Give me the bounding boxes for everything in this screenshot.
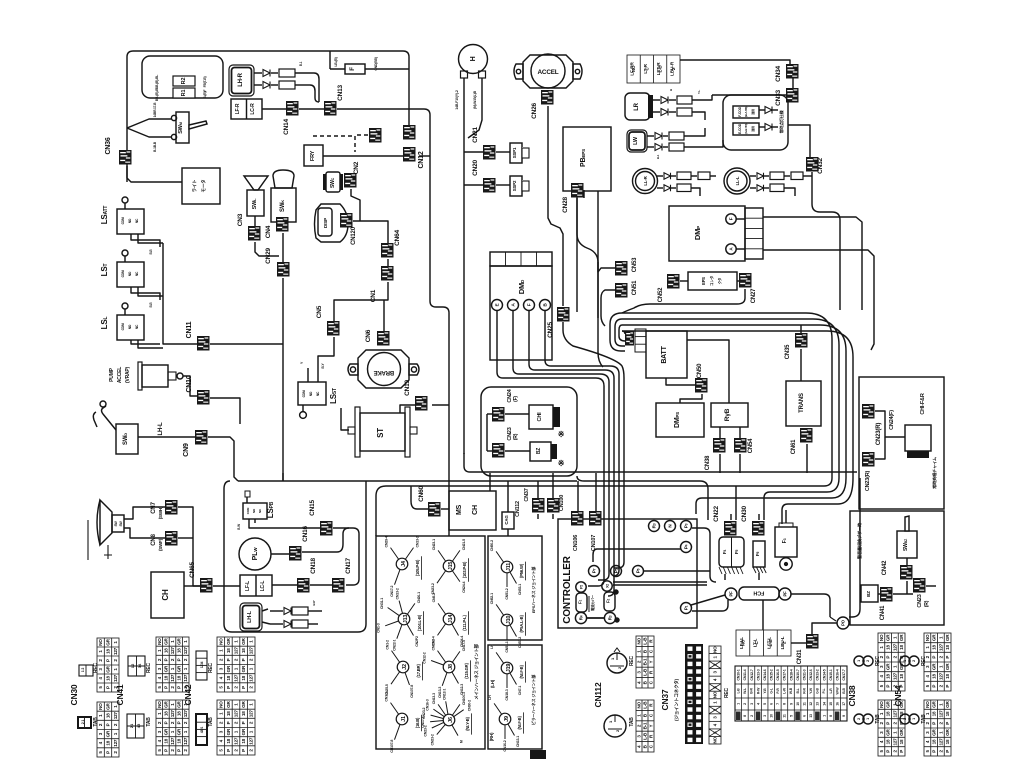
svg-text:13: 13 xyxy=(809,714,813,718)
svg-text:CN11-3: CN11-3 xyxy=(802,669,806,680)
connector CN7 xyxy=(165,500,178,515)
wire enclosure to CN32 xyxy=(788,125,810,157)
svg-text:CN50: CN50 xyxy=(697,363,703,378)
svg-text:TAB: TAB xyxy=(146,717,152,727)
connector CN16 xyxy=(289,546,302,561)
svg-text:R-R: R-R xyxy=(802,688,806,694)
controller inner wires xyxy=(587,617,604,619)
svg-text:CN37: CN37 xyxy=(660,689,670,710)
svg-text:CN100-3: CN100-3 xyxy=(462,692,466,705)
starter ST body xyxy=(360,413,405,451)
svg-text:CN13-1: CN13-1 xyxy=(516,736,520,747)
switch SWl body xyxy=(247,190,264,216)
svg-text:CN23(R): CN23(R) xyxy=(876,423,882,445)
svg-text:18: 18 xyxy=(226,738,231,743)
svg-text:CN51-2: CN51-2 xyxy=(505,588,509,599)
svg-text:GR: GR xyxy=(106,702,111,709)
svg-text:T-L: T-L xyxy=(697,90,701,94)
svg-text:PF: PF xyxy=(729,591,734,597)
wire CN52 to EPS box xyxy=(680,280,688,282)
wire CN20 to SSP2 xyxy=(496,184,510,186)
svg-text:CN42: CN42 xyxy=(882,560,888,575)
svg-text:CN13-2: CN13-2 xyxy=(415,536,419,547)
box CAG xyxy=(502,512,514,529)
svg-text:CN13-2: CN13-2 xyxy=(431,639,435,650)
svg-text:REC: REC xyxy=(208,662,214,673)
svg-text:GR: GR xyxy=(899,634,904,641)
wire CN50 down to DMps xyxy=(680,394,702,403)
connector CN35 xyxy=(795,333,808,348)
svg-text:14BR.17-B: 14BR.17-B xyxy=(153,102,157,118)
resistor R1 xyxy=(173,88,195,98)
connector CN10 xyxy=(197,390,210,405)
wire LF-R to CN14 xyxy=(262,108,286,110)
svg-text:GR: GR xyxy=(886,729,891,736)
svg-text:CN4: CN4 xyxy=(265,225,272,238)
svg-text:18: 18 xyxy=(163,675,168,680)
wire CN6 to bus xyxy=(383,300,385,331)
svg-text:(B-A '88): (B-A '88) xyxy=(744,107,748,118)
svg-text:LT-R: LT-R xyxy=(643,64,649,74)
svg-text:GR: GR xyxy=(226,700,231,707)
svg-text:CN24-4: CN24-4 xyxy=(462,582,466,593)
wire LSatt contacts xyxy=(131,234,160,247)
svg-text:P1: P1 xyxy=(684,605,689,610)
pump accel motor xyxy=(142,365,168,387)
svg-text:(SWH): (SWH) xyxy=(158,506,163,519)
svg-text:18: 18 xyxy=(899,739,904,744)
connector CN3 xyxy=(248,226,261,241)
starter ST left flange xyxy=(355,407,360,457)
right bundle curves to controller xyxy=(376,478,832,536)
svg-text:CN15: CN15 xyxy=(309,500,316,516)
controller box xyxy=(558,519,697,628)
wire PLw to CN16 xyxy=(271,553,289,555)
svg-text:P: P xyxy=(163,686,168,689)
wire long horizontal mid Y481 left xyxy=(238,480,577,482)
box F-COD xyxy=(733,106,759,118)
svg-text:PUMP: PUMP xyxy=(109,367,115,382)
svg-text:2: 2 xyxy=(903,718,907,720)
wire CN25 down join xyxy=(563,322,624,500)
svg-text:GR: GR xyxy=(226,665,231,672)
limit switch LSst xyxy=(298,382,326,405)
svg-text:P: P xyxy=(945,656,950,659)
connector CN34 xyxy=(786,64,799,79)
svg-text:18: 18 xyxy=(163,648,168,653)
svg-text:P: P xyxy=(177,686,182,689)
svg-text:GR: GR xyxy=(241,700,246,707)
svg-text:18: 18 xyxy=(226,648,231,653)
svg-text:GR: GR xyxy=(932,663,937,670)
wire right vertical to PO xyxy=(849,478,860,617)
svg-text:P: P xyxy=(106,659,111,662)
junction hub J4 xyxy=(391,548,399,560)
DMd terminal A xyxy=(508,300,519,311)
svg-text:(104.L-B): (104.L-B) xyxy=(417,614,422,631)
svg-text:NO: NO xyxy=(157,701,162,708)
svg-text:(NI.#-B): (NI.#-B) xyxy=(519,665,524,679)
svg-text:CN52: CN52 xyxy=(658,287,664,302)
connector CN120 xyxy=(340,213,353,228)
box BZ small xyxy=(530,442,551,461)
junction hub J9 xyxy=(494,703,502,714)
svg-text:13: 13 xyxy=(816,702,820,706)
box BZ right-enc xyxy=(861,585,878,602)
svg-text:P6: P6 xyxy=(636,568,641,573)
svg-text:W-B: W-B xyxy=(789,687,793,694)
wire LH-R rows down to CN13 row xyxy=(314,73,319,102)
terminal PF right circle xyxy=(779,588,791,600)
svg-text:ACCEL: ACCEL xyxy=(117,367,123,383)
terminal PF left circle xyxy=(725,588,737,600)
svg-text:127: 127 xyxy=(183,737,188,745)
svg-text:1 2: 1 2 xyxy=(131,664,135,668)
svg-text:127: 127 xyxy=(249,647,254,655)
connector CN23R right-enc xyxy=(862,404,875,419)
svg-text:LBU-R: LBU-R xyxy=(669,61,675,76)
connector CN61 xyxy=(800,428,813,443)
svg-text:F: F xyxy=(729,217,734,220)
svg-text:P: P xyxy=(226,686,231,689)
svg-text:J6: J6 xyxy=(448,717,454,723)
svg-text:CN18-4: CN18-4 xyxy=(789,669,793,680)
display DISP screen xyxy=(318,208,332,236)
svg-text:P: P xyxy=(886,685,891,688)
LL-L chain row2 xyxy=(750,187,756,189)
svg-text:18: 18 xyxy=(177,675,182,680)
svg-text:CN54: CN54 xyxy=(893,685,903,706)
svg-text:CN17-5: CN17-5 xyxy=(462,640,466,651)
svg-text:FB(T-B): FB(T-B) xyxy=(203,77,207,88)
svg-text:CN18: CN18 xyxy=(310,558,317,574)
wire top-left outer loop xyxy=(127,51,409,182)
svg-text:CN23-2: CN23-2 xyxy=(430,734,434,745)
svg-text:CN11: CN11 xyxy=(186,321,193,338)
junction hub J11 xyxy=(496,551,504,562)
controller terminal N top xyxy=(665,521,676,532)
svg-text:常時点灯仕様: 常時点灯仕様 xyxy=(778,109,784,133)
svg-text:P: P xyxy=(106,686,111,689)
controller dots xyxy=(614,590,618,594)
svg-text:CN38: CN38 xyxy=(705,455,711,470)
svg-text:PO: PO xyxy=(841,619,846,626)
svg-text:CN14-5: CN14-5 xyxy=(822,669,826,680)
wire ACCEL down to CN25 area xyxy=(548,106,563,306)
wire ST left terminal xyxy=(341,408,349,430)
DMd terminal B xyxy=(540,300,551,311)
svg-text:J15: J15 xyxy=(448,562,454,571)
wire DMp A to right bus xyxy=(736,248,745,250)
svg-text:F-COD: F-COD xyxy=(738,106,742,116)
svg-text:CN13-3: CN13-3 xyxy=(438,687,442,698)
svg-text:6: 6 xyxy=(770,703,774,705)
small block bottom edge xyxy=(530,750,546,759)
connector CN30 TAB table xyxy=(97,702,119,757)
svg-text:127: 127 xyxy=(938,738,943,746)
connector CN12 lower xyxy=(403,147,416,162)
wire CN14 to CN13 xyxy=(299,108,324,110)
connector CN24F left xyxy=(492,407,505,422)
connector CN17 xyxy=(332,578,345,593)
connector CN22 xyxy=(724,521,737,536)
controller terminal X2 xyxy=(602,581,612,591)
svg-text:G-B: G-B xyxy=(816,687,820,693)
fuse F6 xyxy=(753,541,765,567)
LL-L chain row1 xyxy=(750,175,756,177)
svg-text:W-W: W-W xyxy=(835,687,839,695)
svg-text:COM: COM xyxy=(302,390,306,397)
connector CN42 REC table xyxy=(217,637,255,692)
svg-text:1: 1 xyxy=(737,703,741,705)
connector CN38 TAB circles icon xyxy=(854,714,864,724)
svg-text:CN23: CN23 xyxy=(917,594,923,607)
switch SSP2 xyxy=(510,176,522,196)
wire CN12 lower to vertical xyxy=(419,155,430,157)
svg-text:P: P xyxy=(163,721,168,724)
svg-text:CN27: CN27 xyxy=(751,288,757,303)
LR chain row1 xyxy=(653,99,660,101)
svg-text:3 4: 3 4 xyxy=(138,664,142,668)
svg-text:CN10-1: CN10-1 xyxy=(737,669,741,680)
svg-text:7: 7 xyxy=(776,703,780,705)
svg-text:R2: R2 xyxy=(181,78,187,85)
svg-text:CN17: CN17 xyxy=(345,558,352,574)
svg-text:CN20: CN20 xyxy=(472,160,479,176)
svg-text:COM: COM xyxy=(121,270,125,277)
wire CN19 to vertical bus xyxy=(432,404,449,406)
terminal PO circle xyxy=(837,617,849,629)
switch SWd body xyxy=(116,424,138,454)
svg-text:P: P xyxy=(932,722,937,725)
svg-text:NO: NO xyxy=(879,634,884,641)
controller fuse F2 xyxy=(604,592,615,611)
svg-text:8: 8 xyxy=(743,715,747,717)
svg-text:適用: 適用 xyxy=(750,109,755,115)
wire vertical x430 with jog to x449 xyxy=(430,301,449,536)
svg-text:P: P xyxy=(106,723,111,726)
wire MS CH top to Y473 xyxy=(489,473,491,491)
svg-text:LC-R: LC-R xyxy=(250,103,256,115)
svg-text:P: P xyxy=(945,750,950,753)
svg-text:CN65: CN65 xyxy=(189,562,196,578)
accel sensor ACCEL body xyxy=(523,55,573,88)
svg-text:FCH: FCH xyxy=(753,590,764,596)
DMp connector strip xyxy=(745,208,763,259)
svg-text:NO: NO xyxy=(713,691,718,698)
svg-text:11: 11 xyxy=(783,714,787,718)
svg-text:127: 127 xyxy=(170,710,175,718)
svg-text:127: 127 xyxy=(234,647,239,655)
svg-text:BZ: BZ xyxy=(536,448,542,454)
svg-text:NO: NO xyxy=(98,639,103,646)
svg-text:CN24(F): CN24(F) xyxy=(889,410,895,430)
wire bus to light motor box xyxy=(127,166,182,182)
svg-text:J19: J19 xyxy=(506,664,512,673)
connector CN112 TAB circle xyxy=(604,715,626,737)
connector CN51 xyxy=(615,283,628,298)
svg-text:8: 8 xyxy=(829,715,833,717)
svg-text:DMPS: DMPS xyxy=(674,412,681,428)
svg-text:18: 18 xyxy=(106,713,111,718)
svg-text:(VRAP): (VRAP) xyxy=(125,366,131,383)
svg-text:18: 18 xyxy=(886,674,891,679)
connector block on dashed wire xyxy=(369,128,382,143)
svg-text:J9: J9 xyxy=(504,716,510,722)
svg-text:127: 127 xyxy=(170,674,175,682)
wire horn left down long xyxy=(463,78,465,454)
controller terminal P3 top xyxy=(681,521,692,532)
lamp box LH-R xyxy=(229,65,254,96)
svg-text:SSP1: SSP1 xyxy=(512,147,517,158)
svg-text:P: P xyxy=(226,658,231,661)
svg-text:15: 15 xyxy=(829,702,833,706)
svg-text:J14: J14 xyxy=(448,614,454,624)
wire branch CN20 xyxy=(464,184,483,186)
svg-text:CN17-1: CN17-1 xyxy=(783,669,787,680)
svg-text:5: 5 xyxy=(763,703,767,705)
svg-text:18: 18 xyxy=(226,675,231,680)
svg-text:GR: GR xyxy=(177,665,182,672)
svg-text:1: 1 xyxy=(822,715,826,717)
wire SWl to CN3 xyxy=(254,216,256,226)
dashed wire to block xyxy=(357,134,369,136)
svg-text:EPSハーネス ジョイント部: EPSハーネス ジョイント部 xyxy=(530,567,536,614)
svg-text:127: 127 xyxy=(892,738,897,746)
svg-text:18: 18 xyxy=(932,674,937,679)
LW chain row1 xyxy=(647,135,654,137)
svg-text:127: 127 xyxy=(892,643,897,651)
connector CN42 TAB table xyxy=(217,700,255,755)
svg-text:18: 18 xyxy=(163,711,168,716)
svg-text:CN100: CN100 xyxy=(559,495,565,511)
svg-text:J13: J13 xyxy=(403,615,409,624)
drive motor DMd connector strip xyxy=(490,252,552,266)
svg-text:GR: GR xyxy=(163,665,168,672)
fuse F top xyxy=(345,64,365,74)
wire EPS to CN27 xyxy=(737,280,739,282)
wire CN9 corner into long bus xyxy=(208,437,238,481)
connector CN1 xyxy=(381,266,394,281)
wire CN32 down to bundle xyxy=(812,172,840,310)
svg-text:127: 127 xyxy=(170,647,175,655)
wire CN11 to SWk drop xyxy=(210,343,283,345)
controller terminal P5 xyxy=(611,566,622,577)
LH-L chain row1 xyxy=(262,609,268,611)
svg-text:F4: F4 xyxy=(722,550,727,555)
svg-text:CN17-2: CN17-2 xyxy=(390,586,394,597)
svg-text:CN53: CN53 xyxy=(632,257,638,272)
connector CN6 xyxy=(377,331,390,346)
svg-text:CN30-2: CN30-2 xyxy=(467,700,471,711)
svg-text:(SWF): (SWF) xyxy=(158,538,163,551)
svg-text:P: P xyxy=(241,686,246,689)
connector CN12 upper xyxy=(403,125,416,140)
svg-text:18: 18 xyxy=(886,645,891,650)
connector CN112 REC table xyxy=(636,636,654,688)
switch SWk body xyxy=(271,188,296,222)
svg-text:127: 127 xyxy=(113,647,118,655)
connector CN31 xyxy=(806,634,819,649)
svg-text:CN51: CN51 xyxy=(632,280,638,295)
connector CN41 TAB icon xyxy=(127,714,144,738)
svg-text:18: 18 xyxy=(241,711,246,716)
junction box EPS harness xyxy=(488,536,542,640)
wire P6 right xyxy=(644,570,710,572)
svg-text:LH: LH xyxy=(490,644,494,649)
svg-text:常時斉唱チャイム: 常時斉唱チャイム xyxy=(931,457,938,489)
svg-text:J1: J1 xyxy=(401,716,407,722)
controller terminal R4 xyxy=(575,612,586,623)
dashed wire near CN12 xyxy=(313,135,355,137)
wire PB drop 1 merge bundle xyxy=(577,196,603,367)
connector CN37 numbering strip xyxy=(709,646,721,744)
lamp box LF-R LC-R xyxy=(231,99,262,119)
svg-text:CN16-3: CN16-3 xyxy=(426,699,430,710)
drive motor DMp box xyxy=(669,206,745,261)
wire CN65 to LF-L xyxy=(213,585,240,587)
table LF-RR LT-R LST-R LBU-R xyxy=(627,55,680,83)
svg-text:CN7-1: CN7-1 xyxy=(518,686,522,696)
connector CN28 xyxy=(571,183,584,198)
svg-text:GR: GR xyxy=(163,637,168,644)
svg-text:CN51-1: CN51-1 xyxy=(505,641,509,652)
svg-text:CN12-1: CN12-1 xyxy=(442,689,446,700)
svg-text:CN1-2: CN1-2 xyxy=(385,640,389,650)
svg-text:L-B: L-B xyxy=(643,701,648,709)
svg-text:M: M xyxy=(459,740,463,743)
diode chain row 2 right of LH-R xyxy=(254,84,262,86)
box CHI-F&R xyxy=(905,425,931,451)
lamp LR xyxy=(625,93,650,120)
svg-text:18: 18 xyxy=(899,645,904,650)
svg-text:P: P xyxy=(899,750,904,753)
svg-text:2 1: 2 1 xyxy=(130,724,134,728)
svg-text:127: 127 xyxy=(113,674,118,682)
svg-text:PLW: PLW xyxy=(252,547,259,561)
connector CN38 REC table xyxy=(878,633,905,691)
wire PB down 2 xyxy=(583,190,585,198)
svg-text:SSP2: SSP2 xyxy=(512,180,517,191)
power box PBeps xyxy=(563,127,611,191)
svg-text:P: P xyxy=(106,751,111,754)
svg-text:CN12-2: CN12-2 xyxy=(423,652,427,663)
svg-text:CN60: CN60 xyxy=(418,486,425,502)
connector CN5 xyxy=(327,321,340,336)
svg-text:F5: F5 xyxy=(734,550,739,555)
lamp box LH-L xyxy=(240,603,262,631)
connector CN52 xyxy=(667,274,680,289)
diode chain row 1 right of LH-R xyxy=(254,72,262,74)
svg-text:LF-RR: LF-RR xyxy=(630,62,636,76)
svg-text:GR: GR xyxy=(886,663,891,670)
main bundle horizontal top wires xyxy=(622,313,832,478)
wire CN5 to LSst xyxy=(318,337,334,382)
connector CN42 bottom group icon xyxy=(196,651,207,680)
svg-text:CN14: CN14 xyxy=(283,119,290,135)
wire CN64 to CN1 xyxy=(387,259,389,266)
svg-text:4 3: 4 3 xyxy=(137,724,141,728)
svg-text:10: 10 xyxy=(770,714,774,718)
wire CN27 down xyxy=(622,289,745,313)
svg-text:127: 127 xyxy=(234,737,239,745)
svg-text:CN107-8: CN107-8 xyxy=(410,685,414,698)
wires in chime enclosure xyxy=(487,413,492,415)
svg-text:P: P xyxy=(163,658,168,661)
svg-text:LH: LH xyxy=(488,695,492,700)
svg-text:B-R: B-R xyxy=(750,688,754,694)
svg-text:CN16-2: CN16-2 xyxy=(503,740,507,751)
